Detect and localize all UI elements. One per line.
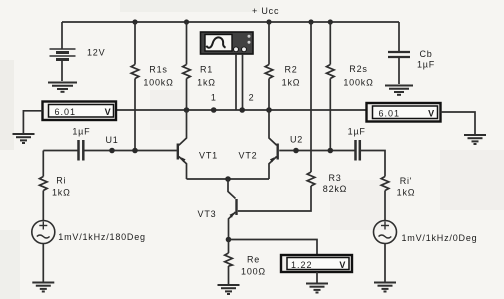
node rail-R2s bbox=[328, 19, 333, 24]
svg-text:1kΩ: 1kΩ bbox=[282, 78, 301, 88]
svg-text:1kΩ: 1kΩ bbox=[52, 187, 71, 197]
svg-text:6.01: 6.01 bbox=[55, 107, 77, 117]
svg-text:82kΩ: 82kΩ bbox=[323, 184, 347, 194]
node R2s bottom bbox=[328, 148, 334, 154]
node emitters bbox=[225, 176, 231, 182]
svg-text:R1s: R1s bbox=[149, 65, 167, 75]
svg-text:1µF: 1µF bbox=[417, 60, 435, 70]
wire to bottom meter bbox=[229, 240, 318, 256]
node U2 bbox=[293, 148, 299, 154]
battery V1 12V bbox=[50, 22, 76, 81]
svg-text:1: 1 bbox=[211, 93, 217, 103]
svg-text:1µF: 1µF bbox=[72, 127, 90, 137]
node 1 bbox=[211, 107, 217, 113]
transistor VT1 bbox=[178, 110, 187, 179]
svg-text:V: V bbox=[339, 260, 346, 270]
voltmeter left 6.01V bbox=[43, 102, 117, 121]
transistor VT3 bbox=[228, 179, 237, 240]
svg-text:V: V bbox=[428, 109, 435, 119]
wire cap to right branch bbox=[361, 151, 386, 177]
wire scope ch1 bbox=[235, 54, 237, 110]
svg-text:R2: R2 bbox=[284, 65, 297, 75]
resistor Re 100 bbox=[225, 240, 233, 285]
ground (right source) bbox=[374, 283, 396, 292]
svg-text:1.22: 1.22 bbox=[291, 260, 313, 270]
wire cap to VT1 base bbox=[84, 150, 177, 152]
ground (Cb) bbox=[385, 86, 413, 95]
svg-text:+ Ucc: + Ucc bbox=[252, 6, 279, 16]
node collector VT2 / R2 bbox=[266, 107, 272, 113]
wire left meter to ground bbox=[23, 111, 42, 133]
voltmeter right 6.01V bbox=[367, 103, 441, 122]
ground (right meter) bbox=[464, 135, 486, 144]
resistor R1 1k bbox=[183, 22, 191, 110]
svg-text:Re: Re bbox=[247, 255, 260, 265]
svg-text:Ri': Ri' bbox=[400, 176, 413, 186]
svg-text:Ri: Ri bbox=[56, 175, 66, 185]
svg-text:12V: 12V bbox=[87, 48, 105, 58]
resistor R3 82k bbox=[238, 22, 315, 211]
source V2 1mV/1kHz/180Deg bbox=[32, 221, 55, 282]
ground (left meter) bbox=[13, 134, 35, 143]
svg-text:1mV/1kHz/0Deg: 1mV/1kHz/0Deg bbox=[402, 233, 478, 243]
svg-text:6.01: 6.01 bbox=[379, 109, 401, 119]
svg-text:U2: U2 bbox=[290, 135, 303, 145]
svg-text:2: 2 bbox=[249, 93, 255, 103]
source V3 1mV/1kHz/0Deg bbox=[374, 221, 397, 282]
wire top +Ucc rail bbox=[62, 21, 399, 23]
svg-text:100Ω: 100Ω bbox=[241, 267, 266, 277]
node rail-R1 bbox=[184, 19, 189, 24]
node 2 bbox=[239, 107, 245, 113]
svg-text:VT1: VT1 bbox=[199, 151, 218, 161]
svg-text:V: V bbox=[105, 107, 112, 117]
ground (Re) bbox=[218, 285, 240, 294]
wire U1 line bbox=[43, 150, 77, 152]
resistor Ri 1k bbox=[40, 177, 48, 221]
resistor R1s 100k bbox=[131, 22, 139, 151]
node rail-R1s bbox=[132, 19, 137, 24]
wire emitter rail bbox=[187, 178, 270, 180]
wire scope ch2 bbox=[242, 54, 244, 110]
node VT3 emitter / Re bbox=[226, 237, 232, 243]
svg-text:1kΩ: 1kΩ bbox=[397, 188, 416, 198]
svg-text:Cb: Cb bbox=[419, 49, 432, 59]
node U1 bbox=[109, 148, 115, 154]
capacitor C1 1uF bbox=[79, 140, 84, 161]
svg-text:1mV/1kHz/180Deg: 1mV/1kHz/180Deg bbox=[58, 232, 146, 242]
node rail-R2 bbox=[266, 19, 271, 24]
ground (bottom meter) bbox=[306, 284, 328, 293]
voltmeter bottom 1.22V bbox=[281, 255, 352, 272]
svg-text:R1: R1 bbox=[200, 65, 213, 75]
wire collector bus y=110 bbox=[116, 109, 366, 111]
svg-text:R2s: R2s bbox=[349, 64, 367, 74]
capacitor C2 1uF bbox=[356, 140, 360, 161]
wire U2 line bbox=[279, 150, 354, 152]
resistor R2 1k bbox=[265, 22, 273, 110]
node rail-R3 bbox=[308, 19, 313, 24]
node collector VT1 / R1 bbox=[184, 107, 190, 113]
ground (left source) bbox=[32, 283, 54, 292]
wire right meter to ground bbox=[441, 112, 476, 134]
svg-text:1kΩ: 1kΩ bbox=[197, 78, 216, 88]
resistor Ri' 1k bbox=[381, 177, 389, 221]
svg-text:VT3: VT3 bbox=[198, 209, 217, 219]
capacitor Cb 1uF bbox=[388, 22, 410, 84]
svg-text:U1: U1 bbox=[105, 135, 118, 145]
transistor VT2 bbox=[269, 110, 278, 179]
node R1s bottom bbox=[132, 148, 138, 154]
svg-text:100kΩ: 100kΩ bbox=[343, 78, 373, 88]
resistor R2s 100k bbox=[327, 22, 335, 151]
svg-text:100kΩ: 100kΩ bbox=[143, 78, 173, 88]
svg-text:VT2: VT2 bbox=[239, 151, 258, 161]
svg-text:R3: R3 bbox=[328, 173, 341, 183]
wire bottom meter to ground bbox=[316, 272, 318, 283]
wire left branch down bbox=[42, 151, 44, 177]
svg-text:1µF: 1µF bbox=[348, 127, 366, 137]
ground (battery) bbox=[48, 83, 77, 92]
oscilloscope XSC1 bbox=[201, 32, 254, 54]
